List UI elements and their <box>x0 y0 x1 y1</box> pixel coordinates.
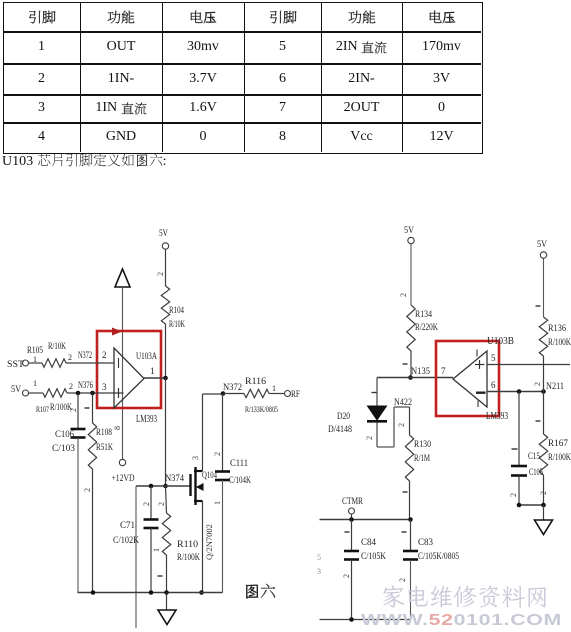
wire pin6 <box>487 391 544 393</box>
node output junction <box>163 376 168 381</box>
terminal RF <box>285 391 291 397</box>
svg-text:5: 5 <box>317 553 321 562</box>
svg-text:3: 3 <box>102 382 107 392</box>
svg-text:N211: N211 <box>546 382 564 392</box>
svg-text:2: 2 <box>509 493 518 497</box>
red highlight box U103A <box>97 331 161 408</box>
svg-text:C/105K/0805: C/105K/0805 <box>418 551 459 561</box>
capacitor C15 <box>511 465 527 468</box>
wire N422 to R130 <box>409 407 411 435</box>
wire N376 to pin3 <box>67 392 114 394</box>
wire R104 to output node <box>165 324 167 378</box>
wire 5V to R134 <box>410 244 412 305</box>
power arrow symbol <box>115 269 130 287</box>
wire C83 top <box>410 520 412 552</box>
capacitor C71 <box>144 518 159 521</box>
input tick top <box>476 350 478 357</box>
svg-text:R/10K: R/10K <box>169 320 185 330</box>
wire R167 to bottom <box>543 475 545 505</box>
resistor R110 <box>162 513 170 555</box>
node N211 <box>541 389 546 394</box>
node junction R108 <box>90 391 95 396</box>
svg-text:Q104: Q104 <box>202 471 217 481</box>
svg-text:5: 5 <box>491 353 496 363</box>
wire R110 to rail <box>166 555 168 593</box>
wire to ground right <box>543 505 545 520</box>
svg-text:R/100K: R/100K <box>548 338 571 348</box>
wire 5V to R136 <box>543 259 545 318</box>
svg-text:CTMR: CTMR <box>342 497 364 507</box>
wire N211 to R167 <box>543 392 545 435</box>
wire drain up to N372 <box>202 394 204 471</box>
svg-text:R107: R107 <box>36 404 49 414</box>
wire R110 top <box>166 486 167 513</box>
svg-text:R/100K: R/100K <box>177 553 200 563</box>
wire N135 to pin7 <box>377 377 453 379</box>
wire CTMR stub <box>351 514 353 520</box>
minus marker pin6 <box>476 392 486 394</box>
svg-text:2: 2 <box>399 293 408 297</box>
pin definition table <box>3 2 483 154</box>
minus tick pin2 <box>118 358 120 368</box>
wire C106 to rail <box>77 438 79 593</box>
svg-text:2: 2 <box>397 423 406 427</box>
svg-text:R108: R108 <box>96 428 112 438</box>
red highlight box U103B <box>436 341 499 416</box>
resistor R105 <box>42 359 66 367</box>
plus marker pin3 <box>118 388 120 398</box>
wire output down to N374 <box>165 378 167 486</box>
capacitor C111 <box>215 470 230 473</box>
red arrow mark <box>112 328 122 336</box>
wire rail to ground <box>166 593 168 611</box>
capacitor C83 <box>403 550 418 553</box>
wire R108 to rail <box>92 469 94 593</box>
node CTMR junction <box>349 517 354 522</box>
ground rail <box>78 592 223 594</box>
wire R136 to N211 <box>543 356 545 392</box>
resistor R130 <box>405 435 413 481</box>
svg-text:2: 2 <box>365 436 374 440</box>
svg-text:R167: R167 <box>548 439 568 449</box>
wire C71 <box>150 486 152 519</box>
svg-text:2: 2 <box>156 272 165 276</box>
svg-text:R136: R136 <box>548 324 566 334</box>
svg-text:U103B: U103B <box>487 336 514 347</box>
svg-text:+12VD: +12VD <box>112 474 135 484</box>
op-amp U103B <box>453 351 487 407</box>
wire SST to R105 <box>29 362 43 364</box>
svg-text:N376: N376 <box>78 381 93 391</box>
svg-text:R116: R116 <box>245 377 266 387</box>
svg-text:C83: C83 <box>418 538 433 548</box>
svg-text:1: 1 <box>272 384 276 393</box>
wire to R108 <box>92 393 94 423</box>
svg-text:C111: C111 <box>230 459 248 469</box>
resistor R136 <box>539 317 547 356</box>
wire source to rail <box>202 501 204 593</box>
wire stub left down <box>135 486 137 628</box>
transistor Q104 drain lead <box>194 470 203 472</box>
resistor R108 <box>88 423 96 469</box>
wire CTMR rail <box>320 519 411 521</box>
svg-text:R/220K: R/220K <box>415 323 438 333</box>
svg-text:8: 8 <box>113 426 122 430</box>
wire opamp output <box>144 377 166 379</box>
node bottom junctions <box>517 503 522 508</box>
svg-text:C105: C105 <box>529 468 543 478</box>
svg-text:R/133K/0805: R/133K/0805 <box>245 404 278 414</box>
node bottom junction <box>349 617 354 622</box>
svg-text:R51K: R51K <box>96 443 113 453</box>
svg-text:N372: N372 <box>78 351 92 361</box>
svg-text:2: 2 <box>83 488 92 492</box>
svg-text:2: 2 <box>342 574 351 578</box>
svg-text:3: 3 <box>191 456 200 460</box>
svg-text:N135: N135 <box>411 367 430 377</box>
wire C15 <box>518 392 520 467</box>
resistor R134 <box>407 305 415 351</box>
watermark chinese <box>381 584 549 613</box>
rail junction dots <box>91 590 96 595</box>
caption U103 <box>2 153 167 170</box>
svg-text:2: 2 <box>69 408 78 412</box>
watermark url <box>361 612 562 630</box>
bottom wire <box>320 619 411 621</box>
svg-text:5V: 5V <box>159 229 168 239</box>
svg-text:C15: C15 <box>528 452 540 462</box>
node junction C71 <box>149 484 154 489</box>
wire C111 to rail <box>222 480 224 593</box>
svg-text:D20: D20 <box>337 412 350 422</box>
svg-text:C/102K: C/102K <box>113 536 139 546</box>
node N135 <box>408 375 413 380</box>
svg-text:C106: C106 <box>55 430 74 440</box>
svg-text:2: 2 <box>213 452 222 456</box>
svg-text:5V: 5V <box>11 385 21 395</box>
input tick bottom <box>477 401 479 408</box>
resistor R107 <box>43 389 67 397</box>
plus marker pin5 <box>479 360 481 369</box>
svg-text:1: 1 <box>152 548 161 552</box>
wire C111 <box>222 394 224 471</box>
svg-text:2: 2 <box>102 350 107 360</box>
node junction C106 <box>76 391 81 396</box>
node N374 junction <box>163 484 168 489</box>
svg-text:6: 6 <box>491 380 496 390</box>
svg-text:1: 1 <box>33 379 37 388</box>
svg-text:2: 2 <box>539 491 548 495</box>
node R130 rail junction <box>408 517 413 522</box>
svg-text:U103A: U103A <box>136 352 157 362</box>
svg-text:2: 2 <box>398 578 407 582</box>
bottom wire right <box>519 504 544 506</box>
svg-text:5V: 5V <box>537 240 547 250</box>
wire N372 to pin2 <box>66 362 114 364</box>
svg-text:2: 2 <box>533 382 542 386</box>
svg-text:C/105K: C/105K <box>361 552 386 562</box>
wire R130 to CTMR rail <box>409 481 411 520</box>
op-amp U103A <box>114 348 144 408</box>
capacitor C84 <box>344 550 359 553</box>
svg-text:R134: R134 <box>415 310 432 320</box>
svg-text:3: 3 <box>317 567 321 576</box>
svg-text:C84: C84 <box>361 538 376 548</box>
svg-text:R104: R104 <box>169 306 184 316</box>
svg-text:N422: N422 <box>394 398 412 408</box>
wire R134 to N135 <box>410 351 412 378</box>
diode D20 <box>368 406 387 420</box>
svg-text:R/1M: R/1M <box>414 454 430 464</box>
node source-rail junction <box>199 590 204 595</box>
svg-text:D/4148: D/4148 <box>328 425 352 435</box>
wire N135 left corner down <box>376 378 378 407</box>
svg-text:R/100K: R/100K <box>548 453 571 463</box>
svg-text:SST: SST <box>7 360 24 370</box>
svg-text:1: 1 <box>33 355 37 364</box>
resistor R104 <box>161 286 169 324</box>
transistor Q104 source lead <box>194 500 203 502</box>
svg-text:R/10K: R/10K <box>48 342 66 352</box>
svg-text:C/104K: C/104K <box>229 476 251 486</box>
wire N374 horizontal <box>136 485 191 487</box>
wire R116 to RF <box>269 393 284 395</box>
svg-text:C71: C71 <box>120 521 135 531</box>
svg-text:N374: N374 <box>165 474 184 484</box>
wire R116 <box>223 393 244 395</box>
wire 5V to R107 <box>29 392 44 394</box>
svg-text:C/103: C/103 <box>52 444 75 454</box>
svg-text:Q/2N7002: Q/2N7002 <box>204 524 214 560</box>
wire N372 horizontal <box>203 393 224 395</box>
svg-text:2: 2 <box>68 353 72 362</box>
wire C71 to rail <box>150 528 152 593</box>
svg-text:LM393: LM393 <box>136 414 157 425</box>
ground symbol right <box>535 520 553 535</box>
svg-text:R110: R110 <box>177 540 198 550</box>
wire pin5 <box>487 364 570 366</box>
wire arrow to +12VD through opamp <box>122 287 124 459</box>
svg-text:2: 2 <box>69 382 73 391</box>
wire C84 to bottom <box>351 560 353 620</box>
svg-text:LM393: LM393 <box>486 411 508 422</box>
wire down to C106 <box>77 393 79 429</box>
resistor R116 <box>244 389 269 397</box>
node C15 junction <box>517 389 522 394</box>
resistor R167 <box>539 434 547 475</box>
svg-text:1: 1 <box>213 501 222 505</box>
wire diode to N422 <box>376 423 378 448</box>
wire 5V to R104 <box>165 250 167 287</box>
svg-text:2: 2 <box>142 502 151 506</box>
svg-text:N372: N372 <box>223 383 242 393</box>
node N372 junction <box>221 391 226 396</box>
transistor Q104 gate bar <box>189 474 191 496</box>
transistor Q104 body arrow <box>197 486 203 488</box>
wire C15 to bottom <box>518 476 520 506</box>
terminal +12VD <box>119 459 125 465</box>
svg-text:2: 2 <box>157 502 166 506</box>
ground symbol <box>158 610 176 625</box>
svg-text:R130: R130 <box>414 440 431 450</box>
wire C83 to bottom <box>410 560 412 620</box>
svg-text:1: 1 <box>150 366 155 376</box>
transistor Q104 channel <box>194 467 196 505</box>
svg-text:5V: 5V <box>404 226 414 236</box>
svg-text:7: 7 <box>441 366 446 376</box>
wire C84 <box>351 520 353 552</box>
capacitor C106 <box>71 428 86 431</box>
svg-text:RF: RF <box>291 390 300 400</box>
label figure six <box>244 583 276 604</box>
